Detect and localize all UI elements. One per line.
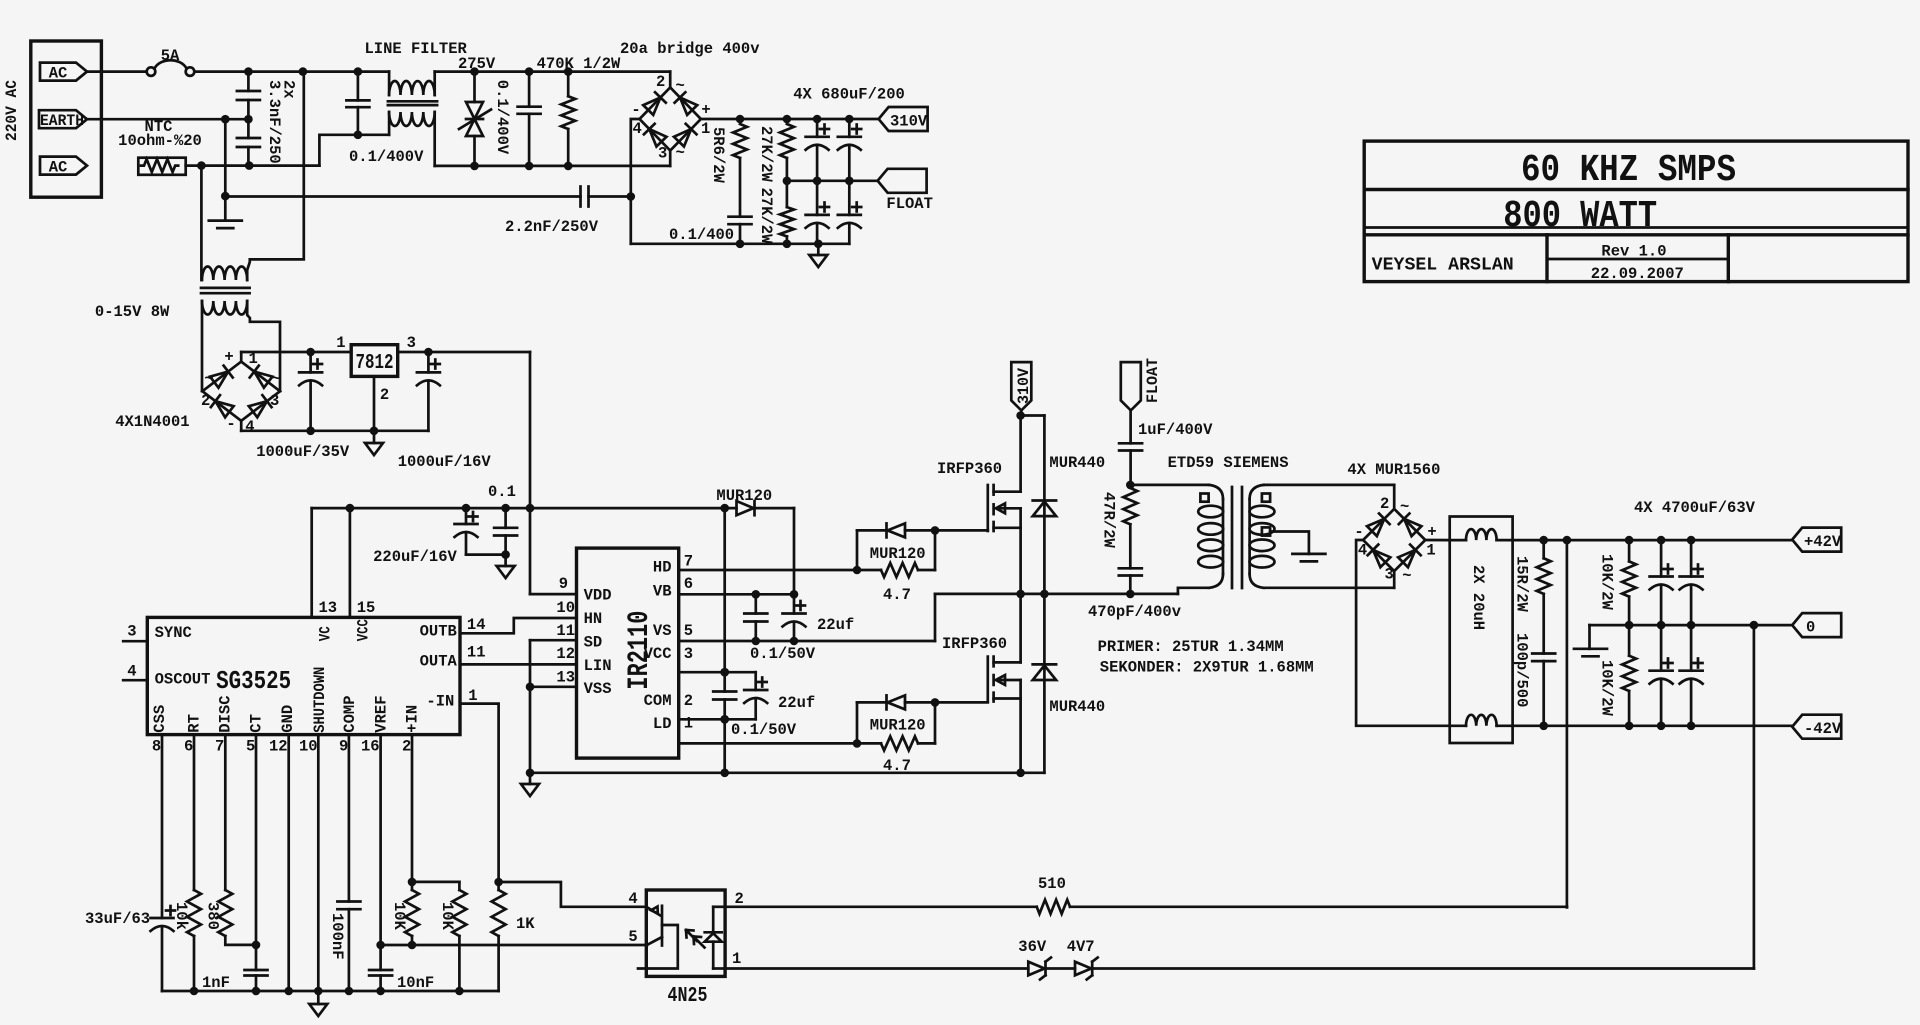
pin name COM [644, 692, 672, 710]
label ~ (aux bridge right) [271, 370, 280, 388]
wire aux primary right to AC [247, 72, 304, 280]
transistor Q1 IRFP360 (high) [988, 416, 1021, 594]
svg-text:LIN: LIN [584, 657, 612, 675]
4N25 LED [705, 907, 725, 969]
svg-text:10: 10 [556, 599, 575, 617]
resistor 10K (divider lower) [452, 882, 466, 991]
label ETD59 SIEMENS [1168, 454, 1289, 472]
zener 4V7 [1075, 958, 1754, 980]
transistor Q2 IRFP360 (low) [988, 594, 1021, 773]
svg-text:510: 510 [1038, 875, 1066, 893]
svg-text:3: 3 [658, 145, 667, 163]
wire SD [530, 639, 577, 642]
wire 310V node [1016, 410, 1044, 419]
label 0.1/50V (bootstrap) [750, 645, 816, 663]
resistor 10K/2W (lower) [1622, 625, 1636, 726]
wire earth to 2.2nF [225, 195, 580, 198]
wire secondary bottom to bridge [1264, 571, 1395, 588]
wire VDD [530, 593, 577, 596]
label IRFP360 (high) [937, 460, 1002, 478]
label pin 3 (7812) [407, 334, 416, 352]
label 11 (SD) [556, 622, 575, 640]
label 1 (bridge) [701, 120, 710, 138]
svg-text:10K/2W: 10K/2W [1598, 554, 1616, 611]
label 2 (MUR1560) [1380, 495, 1389, 513]
label LINE FILTER [365, 40, 468, 58]
resistor 4.7 (high side) [881, 563, 935, 577]
svg-text:10: 10 [299, 737, 318, 755]
svg-text:7: 7 [215, 737, 224, 755]
wire bridge plus to inductor [1425, 539, 1449, 542]
svg-text:11: 11 [556, 622, 575, 640]
svg-text:470pF/400v: 470pF/400v [1088, 603, 1182, 621]
title 60 KHZ SMPS [1521, 149, 1736, 192]
svg-text:3: 3 [684, 645, 693, 663]
svg-text:DISC: DISC [216, 695, 234, 732]
wire SD/VSS gnd drop [526, 640, 535, 777]
svg-text:310V: 310V [890, 112, 928, 130]
svg-text:OUTB: OUTB [420, 623, 457, 641]
IC U2 IR2110 [577, 548, 679, 758]
svg-text:0.1: 0.1 [488, 483, 516, 501]
wire VCC riser [349, 508, 352, 617]
capacitor 1000uF/35V [299, 352, 322, 431]
flag -42V [1792, 715, 1842, 739]
wire -IN feedback drop [460, 704, 499, 882]
pin name GND [279, 705, 297, 733]
capacitor 1000uF/16V [417, 352, 440, 431]
label 2 (+IN) [402, 737, 411, 755]
resistor 10K (VREF divider) [405, 890, 419, 945]
wire COMP lead [348, 735, 351, 902]
svg-text:MUR120: MUR120 [870, 717, 926, 735]
svg-text:1: 1 [336, 334, 345, 352]
capacitor 0.1/400V (pre-filter) [346, 72, 369, 135]
wire filter top rail [435, 67, 671, 76]
svg-text:4: 4 [127, 662, 136, 680]
label 4X 4700uF/63V [1634, 499, 1756, 517]
wire center tap [1270, 532, 1309, 554]
svg-text:220V AC: 220V AC [3, 80, 21, 141]
flag 310V [879, 107, 928, 131]
svg-text:1: 1 [1426, 542, 1435, 560]
label 380 [204, 902, 222, 930]
wire feedback to opto pin4 [499, 882, 647, 907]
wire gate (high) [935, 529, 988, 532]
svg-text:HN: HN [584, 610, 603, 628]
label 10nF [397, 974, 434, 992]
regulator U3 7812 [351, 345, 398, 377]
pin name RT [185, 714, 203, 733]
label MUR440 (low) [1049, 698, 1105, 716]
label 14 (OUTB) [467, 616, 486, 634]
svg-text:9: 9 [559, 575, 568, 593]
svg-text:11: 11 [467, 644, 486, 662]
wire filter bottom rail [435, 162, 671, 171]
svg-text:0.1/50V: 0.1/50V [731, 721, 797, 739]
label + (bridge) [701, 101, 710, 119]
resistor 1K (feedback) [492, 878, 506, 991]
capacitor 680uF/200 #2 [838, 119, 861, 181]
pin stub SYNC [123, 640, 147, 643]
svg-text:CT: CT [248, 714, 266, 733]
label 0.1/50V (VCC) [731, 721, 797, 739]
label pin 1 (7812) [336, 334, 345, 352]
svg-text:7: 7 [684, 552, 693, 570]
label 6 (VB) [684, 575, 693, 593]
label - (aux bridge) [226, 415, 235, 433]
title block frame [1364, 141, 1908, 282]
label 8 (CSS) [152, 737, 161, 755]
svg-text:FLOAT: FLOAT [886, 195, 933, 213]
label 1nF [202, 974, 230, 992]
capacitor 0.1/50V (VCC) [713, 692, 736, 700]
label MUR440 (high) [1049, 454, 1105, 472]
svg-text:~: ~ [676, 144, 685, 162]
diode bridge 4X1N4001 [202, 352, 280, 431]
svg-text:2.2nF/250V: 2.2nF/250V [505, 218, 599, 236]
label 4X MUR1560 [1347, 461, 1440, 479]
svg-text:1: 1 [684, 715, 693, 733]
svg-text:MUR440: MUR440 [1049, 698, 1105, 716]
label 5 (4N25) [628, 928, 637, 946]
wire 12V drop to rail [526, 352, 535, 594]
svg-text:5R6/2W: 5R6/2W [709, 127, 727, 184]
svg-text:3.3nF/250: 3.3nF/250 [265, 80, 283, 164]
label 4X1N4001 [115, 413, 189, 431]
svg-text:13: 13 [319, 599, 338, 617]
svg-text:7812: 7812 [356, 352, 394, 375]
label 275V [458, 55, 496, 73]
resistor 5R6/2W [733, 124, 747, 217]
ground (driver) [521, 773, 539, 796]
label 15 (VCC) [357, 599, 376, 617]
svg-text:VCC: VCC [355, 619, 373, 641]
inductor L1 core [388, 101, 437, 105]
transformer TR1 secondary [1250, 485, 1275, 588]
capacitor 0.1/400 [729, 217, 752, 244]
flag EARTH [39, 110, 87, 130]
capacitor C1 3.3nF/250 (upper) [237, 72, 260, 120]
label 1 (-IN) [468, 687, 477, 705]
resistor 470K 1/2W [561, 72, 575, 166]
svg-text:220uF/16V: 220uF/16V [373, 548, 457, 566]
capacitor 680uF/200 #4 [838, 181, 861, 244]
connector J1 220V AC input [31, 41, 102, 197]
svg-text:MUR120: MUR120 [716, 487, 772, 505]
label 20a bridge 400v [620, 40, 760, 58]
flag 310V (power) [1011, 362, 1033, 410]
label 10 (SHUTDOWN) [299, 737, 318, 755]
label SG3525 [216, 666, 291, 696]
svg-text:0.1/400V: 0.1/400V [493, 80, 511, 155]
svg-text:10K/2W: 10K/2W [1598, 660, 1616, 717]
svg-text:-42V: -42V [1804, 720, 1842, 738]
svg-text:2: 2 [201, 392, 210, 410]
title 800 WATT [1503, 195, 1657, 238]
wire 12V bypass gnd [466, 550, 510, 566]
svg-text:SYNC: SYNC [155, 624, 192, 642]
pin name VS [653, 622, 672, 640]
wire aux DC+ rail [241, 348, 351, 357]
pin name OUTA (SG3525) [420, 653, 458, 671]
svg-text:100p/500: 100p/500 [1513, 633, 1531, 707]
wire VCC drop [720, 508, 729, 691]
label 13 (VSS) [556, 669, 575, 687]
wire 7812 out to VDD drop [398, 348, 530, 357]
wire bootstrap drop to VB [793, 508, 796, 594]
svg-text:22.09.2007: 22.09.2007 [1591, 265, 1684, 283]
svg-text:4X 680uF/200: 4X 680uF/200 [793, 86, 905, 104]
svg-text:4: 4 [628, 890, 637, 908]
svg-text:RT: RT [185, 714, 203, 733]
capacitor C2 3.3nF/250 (lower) [237, 119, 260, 165]
diode bridge 20A 400V [640, 72, 701, 166]
svg-text:12: 12 [269, 737, 288, 755]
capacitor 0.1/400V (post-filter) [518, 72, 541, 166]
label 10K/2W (lower) [1598, 660, 1616, 717]
label ~ (aux bridge left) [204, 370, 213, 388]
svg-text:0.1/400V: 0.1/400V [349, 148, 424, 166]
inductor L2 2X 20uH box [1450, 517, 1513, 744]
svg-text:VB: VB [653, 582, 672, 600]
wire aux DC- rail [241, 427, 428, 436]
zener 36V [1028, 958, 1075, 980]
label 3 (VCC) [684, 645, 693, 663]
svg-text:275V: 275V [458, 55, 496, 73]
svg-text:5: 5 [628, 928, 637, 946]
svg-text:COM: COM [644, 692, 672, 710]
label 15R/2W [1513, 556, 1531, 613]
svg-text:VDD: VDD [584, 586, 612, 604]
wire +42V feedback drop [1566, 540, 1569, 907]
capacitor 22uf (bootstrap) [783, 594, 806, 641]
svg-text:22uf: 22uf [817, 616, 854, 634]
svg-text:Rev 1.0: Rev 1.0 [1601, 243, 1666, 261]
label + (MUR1560) [1427, 523, 1436, 541]
capacitor 100nF (COMP) [337, 902, 360, 992]
svg-text:IRFP360: IRFP360 [937, 460, 1002, 478]
flag 0 [1792, 613, 1841, 637]
svg-text:IRFP360: IRFP360 [942, 635, 1007, 653]
label 1 (LD) [684, 715, 693, 733]
wire bridge minus to inductor [1356, 540, 1450, 726]
label IRFP360 (low) [942, 635, 1007, 653]
pin name SD [584, 634, 603, 652]
label SEKONDER: 2X9TUR 1.68MM [1100, 659, 1314, 677]
svg-text:0-15V 8W: 0-15V 8W [95, 303, 170, 321]
svg-text:2: 2 [380, 386, 389, 404]
svg-text:4.7: 4.7 [883, 586, 911, 604]
label 13 (VC) [319, 599, 338, 617]
label 5 (VS) [684, 622, 693, 640]
svg-text:+IN: +IN [403, 705, 421, 733]
svg-text:VS: VS [653, 622, 672, 640]
wire 0V rail [1590, 621, 1793, 630]
ground (0V) [1574, 649, 1607, 657]
svg-text:4: 4 [245, 418, 254, 436]
label 3.3nF/250 [265, 80, 283, 164]
label 27K/2W (lower) [757, 188, 775, 245]
label 22uf (bootstrap) [817, 616, 854, 634]
label 1 (aux bridge) [249, 350, 258, 368]
flag AC (top) [40, 63, 87, 83]
label 0.1/400V (post-filter) [493, 80, 511, 155]
svg-text:FLOAT: FLOAT [1144, 358, 1162, 403]
svg-text:14: 14 [467, 616, 486, 634]
capacitor 1uF/400V [1119, 410, 1142, 489]
svg-text:4X 4700uF/63V: 4X 4700uF/63V [1634, 499, 1756, 517]
label 0-15V 8W [95, 303, 170, 321]
svg-text:13: 13 [556, 669, 575, 687]
wire 510 to +42 drop [1070, 905, 1567, 908]
svg-text:10K: 10K [390, 902, 408, 931]
capacitor 33uF/63 [151, 906, 176, 991]
svg-text:OSCOUT: OSCOUT [155, 671, 211, 689]
label 6 (RT) [184, 737, 193, 755]
capacitor 4700uF/63V #1 [1650, 540, 1673, 625]
svg-text:VREF: VREF [372, 695, 390, 732]
svg-text:1nF: 1nF [202, 974, 230, 992]
svg-text:SG3525: SG3525 [216, 666, 291, 696]
svg-text:16: 16 [361, 737, 380, 755]
svg-text:SD: SD [584, 634, 603, 652]
label 7 (DISC) [215, 737, 224, 755]
label ~ (MUR1560 top) [1400, 498, 1409, 516]
pin name DISC [216, 695, 234, 732]
svg-text:MUR120: MUR120 [870, 545, 926, 563]
svg-text:VC: VC [317, 626, 335, 641]
flag FLOAT (power) [1121, 362, 1141, 410]
pin name VC [317, 626, 335, 641]
svg-text:VEYSEL ARSLAN: VEYSEL ARSLAN [1372, 256, 1514, 276]
resistor 10K/2W (upper) [1622, 540, 1636, 625]
label PRIMER: 25TUR 1.34MM [1098, 638, 1284, 656]
svg-text:36V: 36V [1018, 938, 1047, 956]
wire gate net verticals (high) [853, 526, 940, 574]
wire AC bottom: NTC to filter [186, 131, 389, 170]
label 220V AC [3, 80, 21, 141]
label MUR120 (bootstrap) [716, 487, 772, 505]
wire EARTH line [87, 115, 253, 124]
svg-text:4X1N4001: 4X1N4001 [115, 413, 189, 431]
svg-text:+42V: +42V [1804, 533, 1842, 551]
wire +IN to 10K upper [412, 881, 459, 884]
resistor 10k (RT) [187, 735, 201, 991]
varistor 275V [459, 72, 491, 166]
pin name HN [584, 610, 603, 628]
wire aux primary left [200, 166, 203, 280]
wire earth drop [221, 119, 230, 219]
svg-text:6: 6 [184, 737, 193, 755]
wire OUTB to HN [460, 618, 577, 633]
label 2 (4N25) [735, 890, 744, 908]
label 0.1/400V (pre-filter) [349, 148, 424, 166]
capacitor 0.1/50V (bootstrap) [744, 594, 767, 641]
svg-text:6: 6 [684, 575, 693, 593]
label 22uf (VCC) [778, 694, 815, 712]
wire OUTA to LIN [460, 663, 577, 666]
svg-text:AC: AC [49, 65, 68, 83]
label 3 (aux bridge) [270, 392, 279, 410]
pin name CSS [151, 705, 169, 733]
title Rev 1.0 [1601, 243, 1666, 261]
svg-text:310V: 310V [1015, 367, 1033, 404]
svg-text:15R/2W: 15R/2W [1513, 556, 1531, 613]
label 10k [172, 902, 190, 930]
transformer TR2 primary winding [202, 267, 247, 281]
flag +42V [1792, 528, 1842, 552]
label 510 [1038, 875, 1066, 893]
label FLOAT (power) [1144, 358, 1162, 403]
label - (bridge) [631, 101, 640, 119]
flag AC (bottom) [40, 157, 87, 177]
label ~ (MUR1560 bottom) [1402, 567, 1411, 585]
wire 0V feedback drop [1753, 625, 1756, 968]
capacitor 100p/500 [1532, 654, 1555, 726]
pin name OUTB (SG3525) [420, 623, 457, 641]
pin name COMP [341, 695, 359, 732]
label 12 (LIN) [556, 645, 575, 663]
svg-text:1: 1 [701, 120, 710, 138]
wire CSS lead [161, 735, 164, 918]
capacitor 220uF/16V [455, 508, 478, 554]
svg-text:-: - [631, 101, 640, 119]
polarity square (secondary) [1262, 494, 1270, 502]
pin name VREF [372, 695, 390, 732]
svg-text:10K: 10K [438, 902, 456, 931]
svg-text:20a bridge 400v: 20a bridge 400v [620, 40, 760, 58]
diode MUR440 (high) [1033, 416, 1056, 594]
title VEYSEL ARSLAN [1372, 256, 1514, 276]
wire SG3525 ground rail [162, 987, 499, 996]
svg-text:10k: 10k [172, 902, 190, 930]
label 11 (OUTA) [467, 644, 486, 662]
label 0.1/400 [669, 226, 734, 244]
pin name SYNC [155, 624, 192, 642]
wire -42V rail [1513, 722, 1793, 731]
wire VCC mini rail [679, 668, 756, 677]
svg-text:+: + [701, 101, 710, 119]
svg-text:2: 2 [656, 73, 665, 91]
label 10K (divider lower) [438, 902, 456, 931]
svg-text:9: 9 [339, 737, 348, 755]
wire HD line [679, 569, 881, 572]
svg-text:5: 5 [684, 622, 693, 640]
pin name HD [653, 559, 672, 577]
wire 12V rail [312, 504, 737, 513]
label 33uF/63 [85, 910, 150, 928]
wire opto pin2 to 510 [725, 905, 1037, 908]
svg-text:0.1/50V: 0.1/50V [750, 645, 816, 663]
transformer TR2 core [201, 288, 250, 293]
svg-text:~: ~ [204, 370, 213, 388]
label 2 (7812) [380, 386, 389, 404]
pin name SHUTDOWN [311, 667, 329, 733]
svg-text:HD: HD [653, 559, 672, 577]
label 2.2nF/250V [505, 218, 599, 236]
svg-text:2: 2 [684, 692, 693, 710]
svg-text:2: 2 [402, 737, 411, 755]
svg-text:OUTA: OUTA [420, 653, 458, 671]
pin name -IN (SG3525) [426, 692, 454, 710]
svg-text:~: ~ [1400, 498, 1409, 516]
label 5R6/2W [709, 127, 727, 184]
svg-text:5: 5 [246, 737, 255, 755]
ground (cap bank) [809, 244, 827, 267]
svg-text:MUR440: MUR440 [1049, 454, 1105, 472]
wire COM drop [720, 700, 729, 778]
